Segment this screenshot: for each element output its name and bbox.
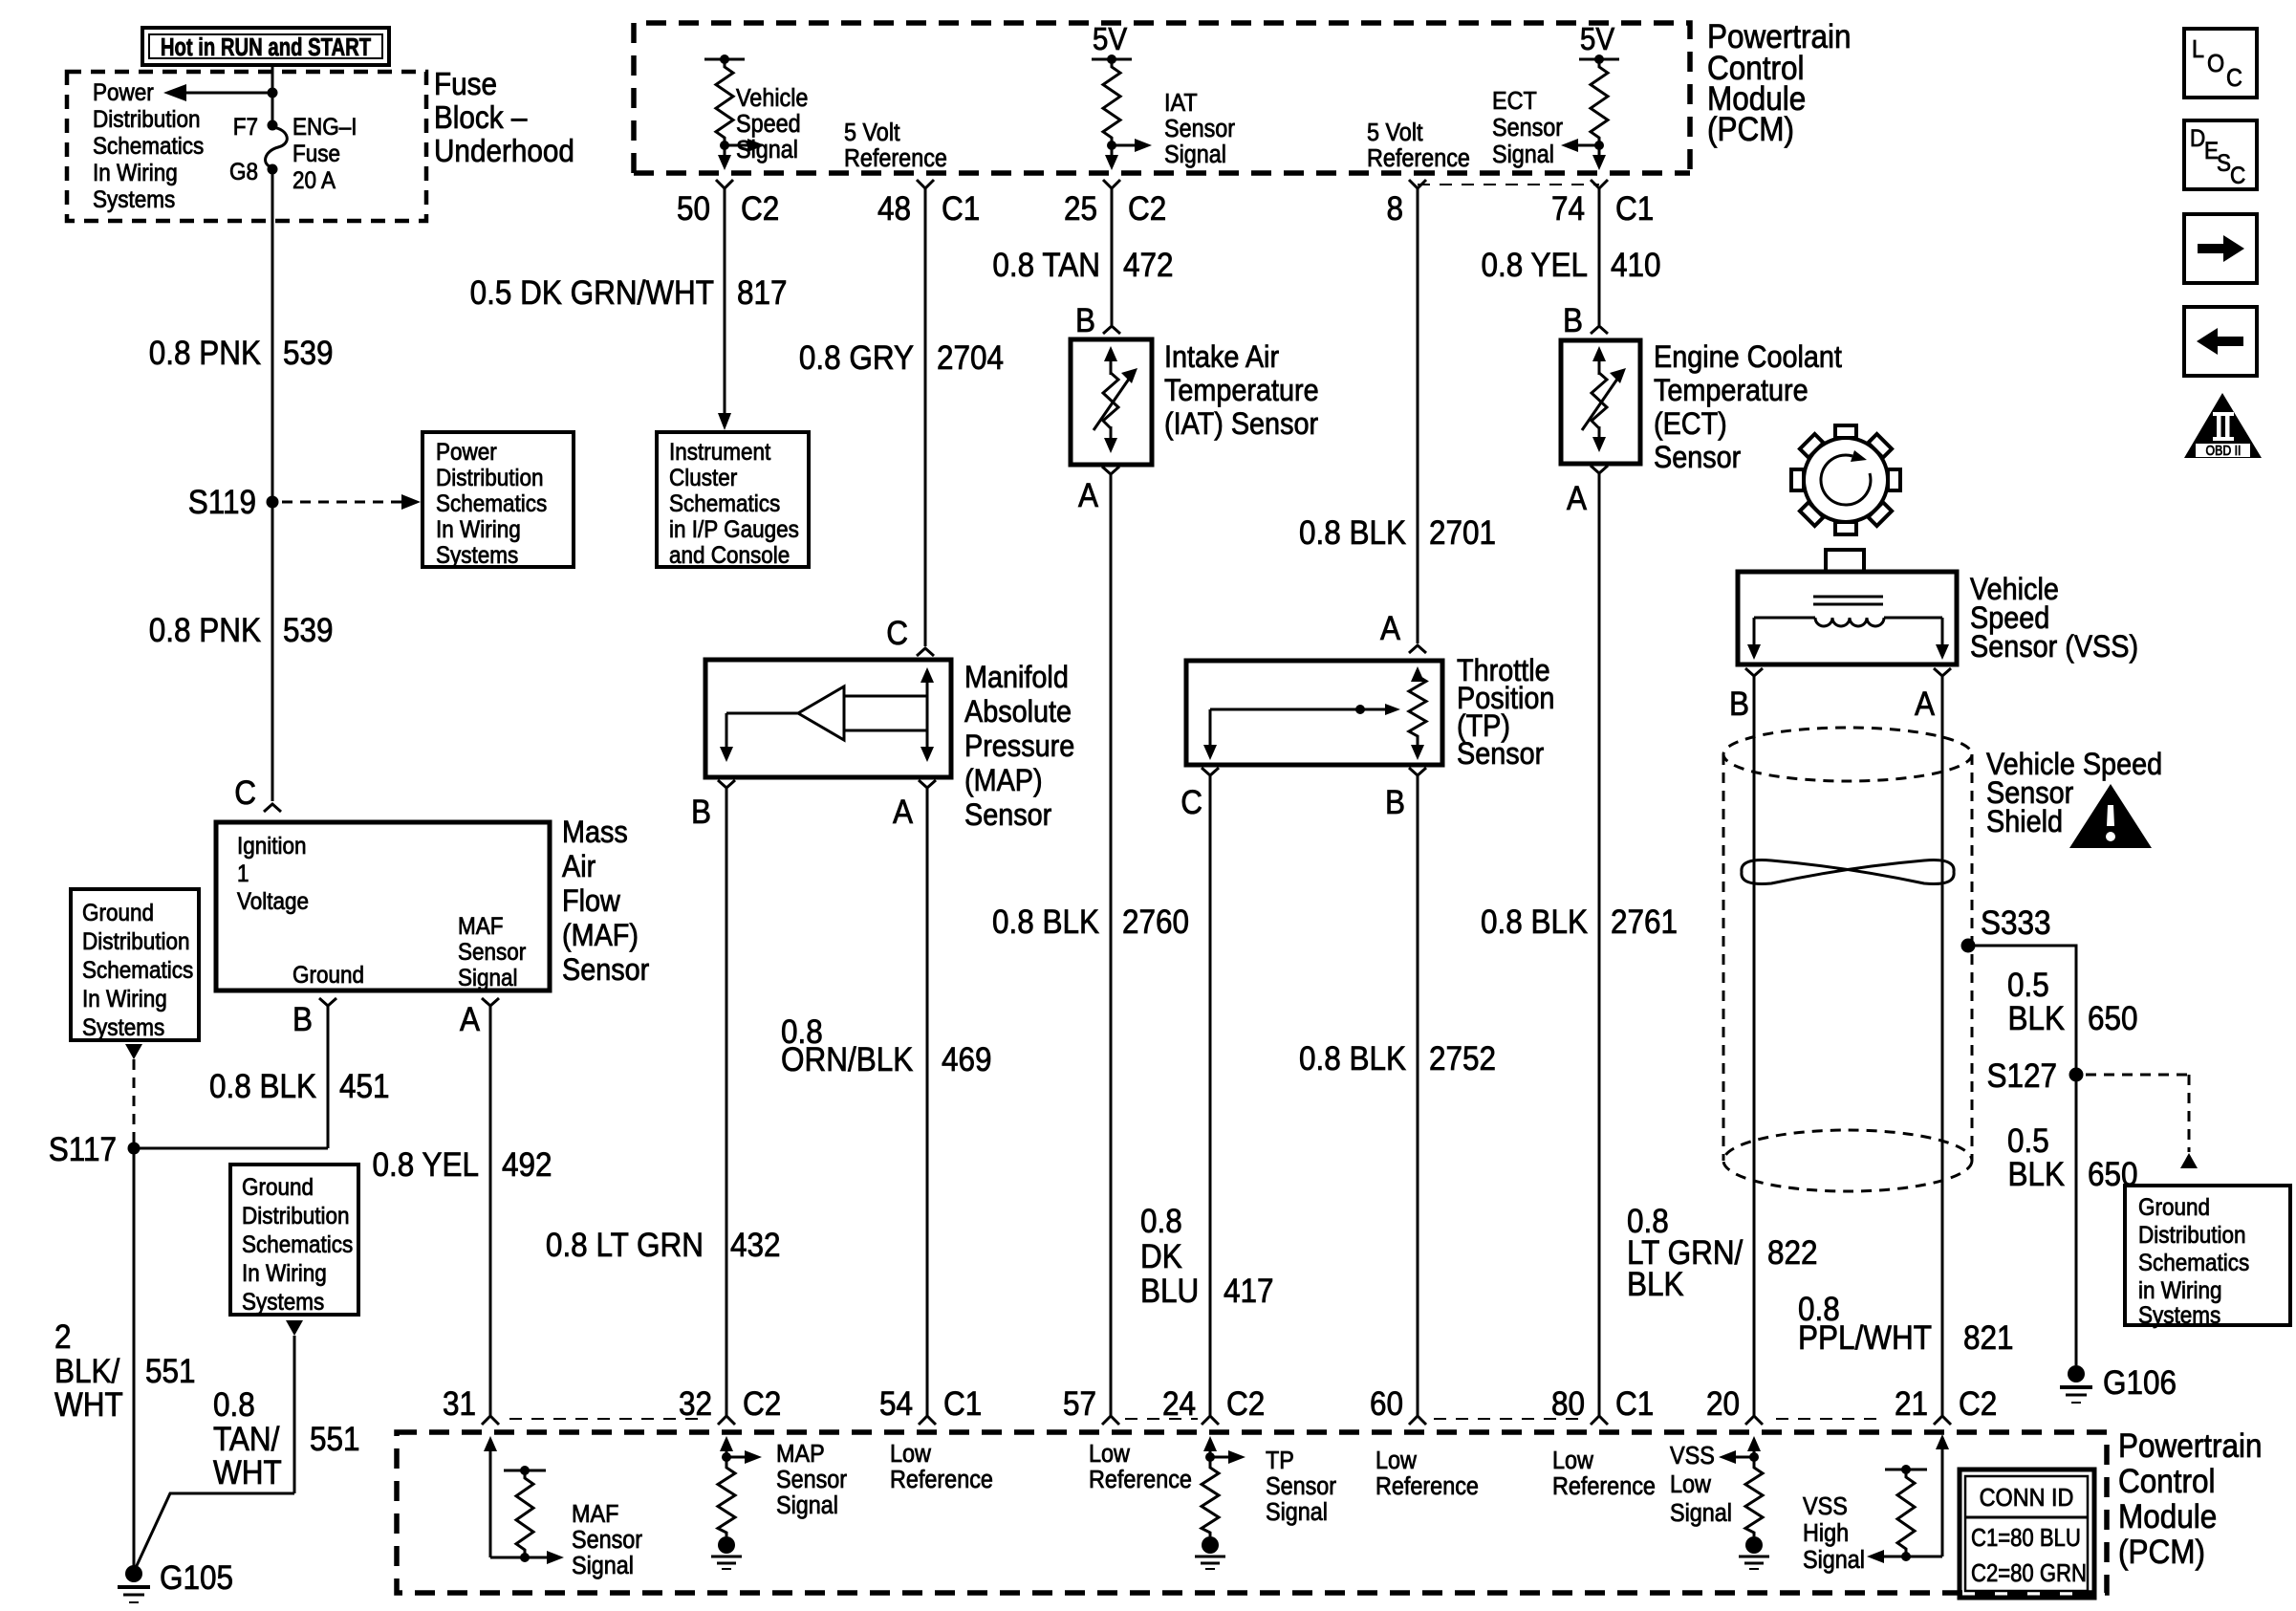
wire 0.5 BLK 650 S333 to S127: [1968, 946, 2138, 1075]
svg-text:Instrument: Instrument: [669, 439, 771, 466]
pin 21 C2 connector: [1895, 1386, 1997, 1425]
label VSS Low Signal: [1670, 1443, 1732, 1527]
svg-text:Intake Air: Intake Air: [1164, 340, 1279, 375]
wire 0.8 PNK 539 fuse to S119: [271, 169, 274, 502]
icon OBD II triangle: [2184, 393, 2262, 458]
wire 0.8 BLK 2752 TP B to pin60: [1299, 775, 1496, 1416]
svg-text:IAT: IAT: [1164, 90, 1198, 117]
svg-text:Signal: Signal: [1803, 1547, 1865, 1574]
wire 0.8 BLK 451 MAF B to S117: [134, 1006, 390, 1148]
svg-text:A: A: [460, 1002, 481, 1039]
reluctor gear icon: [1768, 403, 1922, 556]
node IAT junction with arrows: [1105, 139, 1152, 170]
svg-text:WHT: WHT: [213, 1455, 282, 1492]
pin A MAF connector: [460, 998, 499, 1038]
svg-text:0.8 GRY: 0.8 GRY: [799, 340, 914, 378]
pin 60 connector: [1370, 1386, 1426, 1425]
inductor VSS pickup coil: [1815, 618, 1884, 626]
svg-text:BLK/: BLK/: [54, 1354, 120, 1391]
svg-text:B: B: [1385, 785, 1405, 822]
svg-text:0.5: 0.5: [2007, 968, 2049, 1005]
svg-text:Schematics: Schematics: [242, 1231, 353, 1258]
connector body line pins 60-80: [1434, 1418, 1580, 1420]
svg-text:0.8 PNK: 0.8 PNK: [149, 613, 261, 650]
svg-text:Shield: Shield: [1986, 805, 2063, 839]
svg-text:G105: G105: [160, 1560, 233, 1598]
resistor TP input with ground: [1195, 1463, 1225, 1569]
svg-text:Low: Low: [1089, 1441, 1130, 1468]
MAP signal input pin32 internals: [720, 1436, 762, 1464]
svg-text:2752: 2752: [1429, 1041, 1496, 1078]
pin 50 C2 connector: [677, 180, 779, 228]
svg-text:Ignition: Ignition: [237, 833, 307, 860]
pin B IAT connector: [1075, 303, 1120, 340]
svg-text:C: C: [1180, 785, 1202, 822]
svg-text:0.5: 0.5: [2007, 1123, 2049, 1161]
svg-text:410: 410: [1611, 248, 1661, 285]
svg-text:Schematics: Schematics: [2138, 1250, 2249, 1276]
pin A ECT connector: [1567, 466, 1608, 517]
label Powertrain Control Module (PCM) top: [1707, 19, 1851, 149]
svg-text:TAN/: TAN/: [213, 1422, 280, 1459]
svg-text:(PCM): (PCM): [2118, 1535, 2205, 1572]
svg-text:Voltage: Voltage: [237, 888, 309, 915]
svg-text:472: 472: [1123, 248, 1174, 285]
svg-text:5 Volt: 5 Volt: [844, 120, 900, 146]
svg-text:Schematics: Schematics: [436, 490, 547, 517]
svg-text:Power: Power: [93, 79, 154, 106]
svg-text:Distribution: Distribution: [93, 106, 200, 133]
label IAT Sensor Signal: [1164, 90, 1235, 168]
svg-text:ORN/BLK: ORN/BLK: [781, 1042, 913, 1079]
node ECT junction with arrows: [1561, 139, 1606, 170]
pin A MAP connector: [893, 780, 936, 831]
label Mass Air Flow (MAF) Sensor: [562, 816, 649, 988]
svg-text:0.8 LT GRN: 0.8 LT GRN: [546, 1228, 704, 1265]
svg-text:(ECT): (ECT): [1654, 407, 1727, 442]
pin 20 connector: [1706, 1386, 1763, 1425]
pin C MAP connector: [886, 616, 934, 656]
svg-text:and Console: and Console: [669, 542, 790, 569]
svg-text:BLK: BLK: [1627, 1267, 1684, 1304]
svg-text:A: A: [1078, 478, 1099, 515]
box instrument cluster schematics: [657, 432, 809, 569]
svg-text:Sensor: Sensor: [1164, 116, 1235, 142]
svg-text:ECT: ECT: [1492, 88, 1537, 115]
svg-text:Signal: Signal: [776, 1492, 838, 1519]
resistor VSS low with ground: [1739, 1463, 1769, 1569]
pin A TP connector: [1380, 611, 1426, 653]
label Low Reference pin80: [1552, 1448, 1656, 1500]
svg-text:L: L: [2192, 36, 2204, 63]
svg-text:432: 432: [730, 1228, 781, 1265]
svg-text:Hot in RUN and START: Hot in RUN and START: [161, 33, 371, 61]
svg-text:Signal: Signal: [1266, 1499, 1328, 1526]
svg-text:G8: G8: [229, 159, 258, 185]
svg-text:2704: 2704: [937, 340, 1004, 378]
svg-text:Schematics: Schematics: [82, 957, 193, 984]
svg-text:2761: 2761: [1611, 904, 1678, 942]
svg-text:Sensor: Sensor: [562, 953, 649, 988]
svg-text:Signal: Signal: [736, 137, 798, 163]
wire 0.8 LT GRN 432 MAP B to pin32: [546, 788, 781, 1416]
svg-text:539: 539: [283, 613, 334, 650]
svg-text:High: High: [1803, 1520, 1849, 1547]
warning triangle icon: [2069, 784, 2152, 848]
svg-text:B: B: [292, 1002, 313, 1039]
ground G106: [2060, 1365, 2177, 1403]
svg-text:24: 24: [1162, 1386, 1196, 1424]
resistor MAP input with ground: [711, 1463, 742, 1569]
svg-text:0.8 YEL: 0.8 YEL: [1482, 248, 1588, 285]
svg-text:32: 32: [679, 1386, 712, 1424]
pin 74 C1 connector: [1551, 180, 1654, 228]
svg-text:(IAT) Sensor: (IAT) Sensor: [1164, 407, 1318, 442]
svg-text:Schematics: Schematics: [93, 133, 204, 160]
svg-text:MAP: MAP: [776, 1441, 825, 1468]
pin 31 connector: [443, 1386, 499, 1425]
wire 0.8 YEL 492 MAF A to pin31: [373, 1006, 552, 1416]
box power distribution schematics: [422, 432, 574, 569]
svg-text:In Wiring: In Wiring: [436, 516, 521, 543]
label Low Reference pin60: [1375, 1448, 1479, 1500]
svg-text:0.8: 0.8: [1140, 1204, 1182, 1241]
svg-text:S333: S333: [1981, 905, 2051, 943]
svg-text:F7: F7: [233, 114, 258, 141]
svg-text:Sensor: Sensor: [776, 1467, 847, 1493]
svg-text:817: 817: [737, 275, 788, 313]
svg-text:25: 25: [1064, 191, 1097, 229]
svg-text:Low: Low: [1670, 1471, 1711, 1498]
svg-text:Reference: Reference: [890, 1467, 993, 1493]
ground reference triangle right: [2180, 1153, 2198, 1168]
svg-text:C: C: [886, 616, 908, 653]
svg-text:MAF: MAF: [572, 1501, 618, 1528]
svg-text:822: 822: [1767, 1235, 1818, 1273]
svg-text:Temperature: Temperature: [1164, 374, 1319, 408]
label TP Sensor Signal: [1266, 1448, 1336, 1526]
svg-text:Systems: Systems: [93, 186, 175, 213]
svg-text:MAF: MAF: [458, 913, 503, 940]
svg-text:31: 31: [443, 1386, 476, 1424]
svg-text:Signal: Signal: [1164, 142, 1226, 168]
svg-text:VSS: VSS: [1803, 1493, 1848, 1520]
svg-text:0.8 PNK: 0.8 PNK: [149, 336, 261, 373]
pin 54 C1 connector: [879, 1386, 982, 1425]
svg-text:S127: S127: [1986, 1058, 2057, 1096]
svg-text:Schematics: Schematics: [669, 490, 780, 517]
svg-text:Sensor (VSS): Sensor (VSS): [1970, 630, 2138, 664]
svg-text:C1: C1: [1615, 1386, 1654, 1424]
svg-text:2: 2: [54, 1319, 72, 1357]
svg-text:21: 21: [1895, 1386, 1928, 1424]
svg-text:Sensor: Sensor: [1492, 115, 1563, 142]
svg-text:Systems: Systems: [2138, 1302, 2220, 1329]
connector body line pins 31-32: [509, 1418, 705, 1420]
svg-text:2760: 2760: [1122, 904, 1189, 942]
icon right arrow box: [2184, 214, 2257, 283]
svg-text:451: 451: [339, 1069, 390, 1106]
label Low Reference pin54: [890, 1441, 993, 1493]
svg-text:0.8 BLK: 0.8 BLK: [1299, 1041, 1406, 1078]
pin 24 C2 connector: [1162, 1386, 1265, 1425]
svg-text:821: 821: [1963, 1320, 2014, 1358]
shield cylinder dashed: [1723, 728, 1972, 1191]
pin B MAF connector: [292, 998, 336, 1038]
svg-text:650: 650: [2088, 1157, 2138, 1194]
pin C TP connector: [1180, 768, 1219, 821]
svg-text:Low: Low: [1552, 1448, 1593, 1474]
wire 0.5 DK GRN/WHT 817 pin50 to instrument cluster: [470, 188, 788, 430]
box ground distribution schematics right: [2125, 1186, 2290, 1329]
wire 0.8 TAN 472 pin25 to IAT B: [992, 188, 1173, 325]
label Fuse Block - Underhood: [434, 67, 574, 169]
svg-text:Power: Power: [436, 439, 497, 466]
TP signal input pin24 internals: [1203, 1436, 1245, 1464]
svg-text:57: 57: [1063, 1386, 1096, 1424]
svg-text:20: 20: [1706, 1386, 1740, 1424]
svg-text:0.8 YEL: 0.8 YEL: [373, 1147, 479, 1185]
resistor MAF input pulldown: [504, 1466, 546, 1557]
svg-text:B: B: [1729, 686, 1749, 724]
svg-text:Speed: Speed: [736, 111, 801, 138]
label Manifold Absolute Pressure (MAP) Sensor: [964, 661, 1074, 833]
wire coil leads to pins: [1747, 618, 1949, 660]
label Powertrain Control Module (PCM) bottom: [2118, 1428, 2262, 1572]
svg-text:A: A: [1915, 686, 1936, 724]
svg-text:Fuse: Fuse: [292, 141, 340, 167]
svg-text:BLK: BLK: [2007, 1157, 2065, 1194]
wire 0.8 YEL 410 pin74 to ECT B: [1482, 188, 1661, 325]
svg-text:0.8 BLK: 0.8 BLK: [1481, 904, 1588, 942]
VSS core lines: [1813, 597, 1883, 604]
svg-text:A: A: [893, 795, 914, 832]
svg-text:ENG–I: ENG–I: [292, 114, 357, 141]
svg-text:S117: S117: [49, 1132, 117, 1169]
wire dashed arrow S119 to power distribution box: [282, 501, 405, 504]
svg-text:650: 650: [2088, 1001, 2138, 1038]
ground G105: [118, 1560, 233, 1602]
wire 0.8 BLK 2761 ECT A to pin80: [1481, 473, 1678, 1416]
svg-text:Systems: Systems: [82, 1014, 164, 1041]
connector body line pins 8-74: [1418, 184, 1599, 185]
svg-text:Manifold: Manifold: [964, 661, 1069, 695]
svg-text:C1: C1: [943, 1386, 982, 1424]
svg-text:469: 469: [942, 1042, 992, 1079]
svg-text:Signal: Signal: [572, 1553, 634, 1579]
VSS low input pin20 internals: [1719, 1436, 1761, 1464]
svg-text:54: 54: [879, 1386, 913, 1424]
svg-text:In Wiring: In Wiring: [93, 160, 178, 186]
svg-text:0.5 DK GRN/WHT: 0.5 DK GRN/WHT: [470, 275, 714, 313]
svg-text:Ground: Ground: [242, 1174, 314, 1201]
VSS high input pin21 internals: [1867, 1434, 1949, 1563]
pin 80 C1 connector: [1551, 1386, 1654, 1425]
svg-text:0.8: 0.8: [213, 1387, 255, 1425]
wire 0.8 BLK 2760 IAT A to pin57: [992, 474, 1189, 1416]
svg-text:C1=80 BLU: C1=80 BLU: [1971, 1524, 2081, 1552]
pin B VSS connector: [1729, 668, 1763, 723]
svg-text:C2: C2: [1959, 1386, 1997, 1424]
pin B MAP connector: [691, 780, 735, 831]
icon left arrow box: [2184, 307, 2257, 376]
svg-text:48: 48: [877, 191, 911, 229]
pin B TP connector: [1385, 768, 1426, 821]
svg-text:C: C: [2230, 163, 2245, 189]
label Engine Coolant Temperature (ECT) Sensor: [1654, 340, 1842, 475]
PCM top dashed box: [634, 23, 1690, 173]
label Low Reference pin57: [1089, 1441, 1192, 1493]
wire 0.5 BLK 650 S127 to G106: [2007, 1075, 2138, 1365]
svg-text:Low: Low: [1375, 1448, 1417, 1474]
svg-text:C2=80 GRN: C2=80 GRN: [1971, 1559, 2087, 1587]
svg-text:C: C: [2226, 65, 2242, 92]
svg-text:B: B: [1075, 303, 1095, 340]
svg-text:Sensor: Sensor: [964, 798, 1051, 833]
svg-text:C2: C2: [741, 191, 779, 229]
label MAP Sensor Signal: [776, 1441, 847, 1519]
PCM bottom dashed box: [397, 1432, 2107, 1593]
svg-text:Reference: Reference: [1089, 1467, 1192, 1493]
ground reference triangle lower: [286, 1320, 303, 1336]
svg-text:2701: 2701: [1429, 515, 1496, 553]
label 5 Volt Reference pin8: [1367, 120, 1470, 172]
svg-text:C2: C2: [1226, 1386, 1265, 1424]
fuse block dashed box: [67, 72, 426, 221]
label Vehicle Speed Signal: [736, 85, 808, 163]
pin B ECT connector: [1563, 303, 1608, 340]
svg-text:Systems: Systems: [242, 1289, 324, 1316]
svg-text:O: O: [2207, 51, 2224, 77]
box ground distribution schematics left: [71, 889, 199, 1041]
connector body line pins 20-21: [1776, 1418, 1876, 1420]
svg-text:In Wiring: In Wiring: [82, 986, 167, 1012]
svg-text:Block –: Block –: [434, 100, 528, 136]
svg-text:B: B: [1563, 303, 1583, 340]
svg-text:492: 492: [502, 1147, 552, 1185]
svg-text:5V: 5V: [1580, 22, 1614, 57]
svg-text:Temperature: Temperature: [1654, 374, 1809, 408]
svg-text:50: 50: [677, 191, 710, 229]
svg-text:0.8 TAN: 0.8 TAN: [992, 248, 1100, 285]
svg-text:5V: 5V: [1093, 22, 1127, 57]
svg-text:C1: C1: [942, 191, 980, 229]
svg-text:Sensor: Sensor: [1457, 737, 1544, 772]
pin 57 connector: [1063, 1386, 1119, 1425]
pin 25 C2 connector: [1064, 180, 1166, 228]
svg-text:VSS: VSS: [1670, 1443, 1715, 1469]
wire 0.8 BLK 2701 pin8 to TP A: [1299, 188, 1496, 643]
svg-text:20 A: 20 A: [292, 167, 336, 194]
svg-text:539: 539: [283, 336, 334, 373]
node S127: [1986, 1058, 2083, 1096]
svg-text:B: B: [691, 795, 711, 832]
svg-text:551: 551: [310, 1422, 360, 1459]
svg-text:S: S: [2217, 150, 2231, 177]
svg-text:BLU: BLU: [1140, 1274, 1199, 1311]
svg-text:In Wiring: In Wiring: [242, 1260, 327, 1287]
svg-text:5 Volt: 5 Volt: [1367, 120, 1423, 146]
svg-text:Distribution: Distribution: [2138, 1222, 2245, 1249]
note Power Distribution Schematics In Wiring Systems: [93, 79, 204, 213]
svg-text:in Wiring: in Wiring: [2138, 1277, 2221, 1304]
svg-text:417: 417: [1224, 1274, 1274, 1311]
svg-text:Reference: Reference: [844, 145, 947, 172]
svg-text:Ground: Ground: [2138, 1194, 2210, 1221]
label MAF Sensor Signal: [572, 1501, 642, 1579]
pin A VSS connector: [1915, 668, 1951, 723]
svg-text:Systems: Systems: [436, 542, 518, 569]
node S333 shield to drain: [1961, 905, 2051, 953]
ECT sensor thermistor: [1561, 340, 1640, 464]
icon LOC box: [2184, 29, 2257, 98]
svg-text:Sensor: Sensor: [572, 1527, 642, 1554]
node S117: [128, 1143, 141, 1155]
svg-text:Reference: Reference: [1552, 1473, 1656, 1500]
node S119: [267, 496, 279, 509]
resistor VSS output driver pin50: [704, 54, 745, 145]
svg-text:Underhood: Underhood: [434, 134, 574, 169]
svg-text:Powertrain: Powertrain: [2118, 1428, 2262, 1466]
svg-text:G106: G106: [2103, 1365, 2177, 1403]
wire 0.8 PNK 539 S119 to MAF C: [271, 502, 274, 801]
label Intake Air Temperature (IAT) Sensor: [1164, 340, 1319, 442]
svg-text:Reference: Reference: [1375, 1473, 1479, 1500]
title box Hot in RUN and START: [142, 28, 389, 65]
wire dashed S127 to ground reference: [2086, 1075, 2189, 1152]
svg-text:Distribution: Distribution: [436, 465, 543, 491]
potentiometer TP sensor: [1186, 661, 1442, 765]
svg-text:(PCM): (PCM): [1707, 112, 1794, 149]
pin 48 C1 connector: [877, 180, 980, 228]
box MAF sensor: [216, 822, 550, 991]
svg-text:Flow: Flow: [562, 884, 621, 919]
svg-text:(MAP): (MAP): [964, 764, 1043, 798]
svg-text:Signal: Signal: [1670, 1500, 1732, 1527]
wire 2 BLK/WHT 551 S117 to G105: [54, 1148, 196, 1572]
svg-text:74: 74: [1551, 191, 1585, 229]
svg-text:C2: C2: [1128, 191, 1166, 229]
svg-text:0.8 BLK: 0.8 BLK: [992, 904, 1099, 942]
wire 0.8 DK BLU 417 TP C to pin24: [1140, 775, 1274, 1416]
svg-text:OBD II: OBD II: [2206, 443, 2242, 458]
svg-text:TP: TP: [1266, 1448, 1294, 1474]
pin 8 connector: [1386, 180, 1426, 228]
pin 32 C2 connector: [679, 1386, 781, 1425]
svg-text:0.8 BLK: 0.8 BLK: [1299, 515, 1406, 553]
svg-text:Low: Low: [890, 1441, 931, 1468]
svg-text:Ground: Ground: [82, 900, 154, 926]
svg-text:(MAF): (MAF): [562, 919, 639, 953]
svg-text:Sensor: Sensor: [458, 939, 526, 966]
wire 0.8 GRY 2704 pin48 to MAP C: [799, 188, 1004, 646]
wire branch arrow to power distribution: [184, 92, 272, 95]
svg-text:Ground: Ground: [292, 962, 364, 989]
node pin50 junction with arrows: [718, 139, 765, 170]
svg-text:Air: Air: [562, 850, 596, 884]
wire 0.8 TAN/WHT 551 to G105: [134, 1336, 360, 1572]
wire hot feed from title box: [271, 64, 274, 125]
wire 0.8 PPL/WHT 821 VSS A to pin21: [1798, 676, 2014, 1416]
svg-text:C1: C1: [1615, 191, 1654, 229]
twisted pair symbol: [1742, 860, 1954, 884]
svg-text:Engine Coolant: Engine Coolant: [1654, 340, 1842, 375]
svg-text:1: 1: [237, 860, 249, 887]
label 5 Volt Reference pin48: [844, 120, 947, 172]
fuse F7/G8 ENG-I 20A: [229, 114, 357, 194]
box VSS sensor: [1738, 550, 1957, 664]
svg-text:60: 60: [1370, 1386, 1403, 1424]
